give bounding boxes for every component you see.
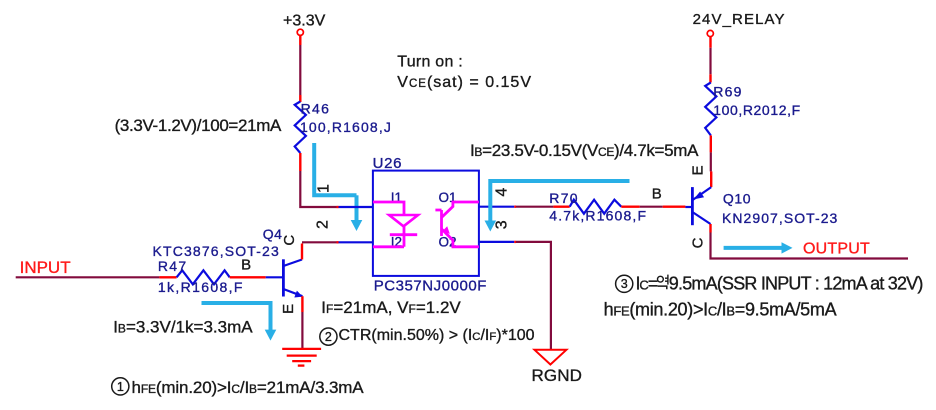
wire Q4 collector to U26 pin 2 bbox=[302, 242, 339, 259]
wire R46 to U26 pin 1 bbox=[300, 153, 338, 207]
wire INPUT to R47 bbox=[16, 276, 177, 278]
annotation circled 3 bbox=[616, 275, 633, 292]
svg-text:R69: R69 bbox=[713, 84, 743, 100]
svg-text:9.5mA(SSR INPUT : 12mA at 32V): 9.5mA(SSR INPUT : 12mA at 32V) bbox=[669, 274, 923, 294]
U26 phototransistor emitter arrow bbox=[442, 226, 450, 234]
resistor R69 bbox=[705, 83, 716, 136]
svg-text:1: 1 bbox=[117, 380, 124, 394]
wire U26 pin3 to RGND bbox=[514, 242, 551, 350]
svg-text:R47: R47 bbox=[158, 258, 188, 274]
svg-text:+3.3V: +3.3V bbox=[283, 12, 326, 29]
U26 internal LED cathode lead bbox=[373, 226, 404, 247]
svg-text:IF=21mA, VF=1.2V: IF=21mA, VF=1.2V bbox=[321, 298, 461, 317]
svg-text:100,R2012,F: 100,R2012,F bbox=[713, 102, 801, 118]
wire U26 pin4 to R70 bbox=[514, 205, 569, 207]
transistor Q4 bbox=[266, 259, 303, 296]
svg-text:B: B bbox=[241, 256, 251, 273]
svg-text:hFE(min.20)>IC/IB=21mA/3.3mA: hFE(min.20)>IC/IB=21mA/3.3mA bbox=[132, 378, 365, 397]
transistor Q10 bbox=[685, 187, 711, 225]
ground RGND symbol bbox=[535, 350, 567, 365]
svg-text:4: 4 bbox=[494, 188, 511, 197]
svg-text:KTC3876,SOT-23: KTC3876,SOT-23 bbox=[153, 243, 280, 259]
svg-text:R46: R46 bbox=[301, 101, 331, 117]
svg-text:KN2907,SOT-23: KN2907,SOT-23 bbox=[722, 210, 838, 226]
svg-text:IB=23.5V-0.15V(VCE)/4.7k=5mA: IB=23.5V-0.15V(VCE)/4.7k=5mA bbox=[470, 141, 699, 160]
svg-text:OUTPUT: OUTPUT bbox=[803, 241, 870, 258]
svg-text:E: E bbox=[280, 304, 297, 314]
U26 pin 1 bbox=[339, 206, 373, 208]
svg-text:4.7k,R1608,F: 4.7k,R1608,F bbox=[549, 208, 647, 224]
svg-text:hFE(min.20)>IC/IB=9.5mA/5mA: hFE(min.20)>IC/IB=9.5mA/5mA bbox=[604, 300, 837, 320]
svg-text:1: 1 bbox=[316, 184, 333, 193]
svg-text:2: 2 bbox=[325, 330, 332, 344]
annotation circled 1 bbox=[112, 378, 129, 395]
svg-text:100,R1608,J: 100,R1608,J bbox=[300, 119, 392, 135]
svg-text:1k,R1608,F: 1k,R1608,F bbox=[158, 279, 244, 295]
svg-text:(3.3V-1.2V)/100=21mA: (3.3V-1.2V)/100=21mA bbox=[115, 116, 282, 135]
svg-text:PC357NJ0000F: PC357NJ0000F bbox=[374, 277, 487, 294]
cyan current arrow into pin 1 bbox=[314, 143, 356, 222]
cyan OUTPUT arrow bbox=[724, 246, 783, 250]
wire Q4 emitter to ground bbox=[301, 296, 303, 348]
wire R70 to Q10 base bbox=[621, 205, 685, 207]
Q10 emitter arrow bbox=[694, 192, 705, 200]
wire R47 to Q4 base bbox=[230, 276, 266, 278]
U26 internal LED anode lead bbox=[373, 202, 404, 215]
korean glyph yak bbox=[658, 275, 668, 290]
power +3.3V symbol circle bbox=[297, 29, 303, 35]
wire 24V_RELAY to R69 bbox=[709, 37, 711, 83]
resistor R47 bbox=[177, 270, 230, 284]
wire Q10 collector to OUTPUT bbox=[711, 224, 909, 259]
U26 phototransistor base bar bbox=[435, 210, 441, 236]
svg-text:U26: U26 bbox=[373, 155, 403, 172]
svg-text:3: 3 bbox=[494, 220, 511, 229]
U26 pin 2 bbox=[339, 241, 373, 243]
svg-text:B: B bbox=[652, 186, 662, 203]
svg-text:INPUT: INPUT bbox=[20, 258, 71, 277]
svg-text:24V_RELAY: 24V_RELAY bbox=[693, 11, 786, 28]
annotation circled 2 bbox=[320, 328, 337, 345]
resistor R46 bbox=[295, 102, 306, 154]
ground symbol at Q4 emitter bbox=[282, 349, 321, 366]
wire R69 to Q10 emitter bbox=[710, 135, 713, 187]
wire +3.3V to R46 bbox=[299, 36, 301, 103]
U26 internal LED triangle bbox=[389, 215, 418, 226]
svg-text:Turn on :: Turn on : bbox=[397, 54, 463, 71]
svg-text:2: 2 bbox=[315, 220, 332, 229]
svg-text:Q4: Q4 bbox=[263, 226, 283, 242]
U26 pin 4 bbox=[479, 206, 514, 208]
power 24V_RELAY symbol circle bbox=[707, 30, 713, 36]
svg-text:IB=3.3V/1k=3.3mA: IB=3.3V/1k=3.3mA bbox=[113, 318, 253, 337]
svg-text:CTR(min.50%) > (IC/IF)*100: CTR(min.50%) > (IC/IF)*100 bbox=[339, 327, 535, 344]
U26 phototransistor emitter lead bbox=[442, 229, 479, 247]
U26 phototransistor collector lead bbox=[442, 202, 479, 218]
svg-text:Q10: Q10 bbox=[723, 191, 751, 207]
U26 pin 3 bbox=[479, 241, 514, 243]
Q4 emitter arrow bbox=[294, 291, 302, 298]
optocoupler U26 box bbox=[373, 171, 479, 276]
resistor R70 bbox=[570, 200, 622, 214]
svg-text:E: E bbox=[689, 165, 706, 175]
cyan current arrow at Q4 base (IB) bbox=[202, 303, 271, 330]
cyan current arrow into pin 3 bbox=[490, 181, 629, 222]
svg-text:RGND: RGND bbox=[532, 366, 582, 385]
svg-text:R70: R70 bbox=[549, 190, 579, 206]
svg-text:3: 3 bbox=[621, 277, 628, 291]
svg-text:C: C bbox=[689, 237, 706, 248]
svg-text:C: C bbox=[281, 235, 298, 246]
U26 internal LED cathode bar bbox=[390, 233, 417, 236]
